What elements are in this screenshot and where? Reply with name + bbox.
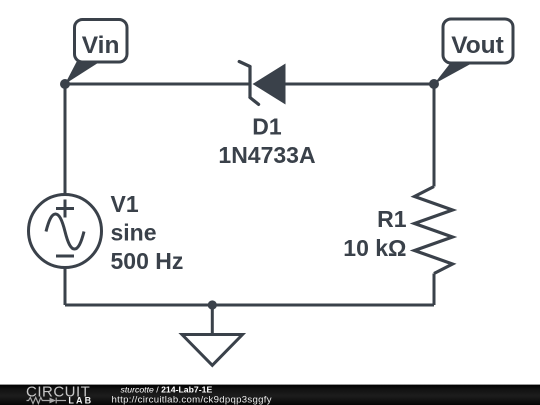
svg-text:D1: D1 [252,113,282,139]
svg-text:sine: sine [111,220,157,246]
node Vout flag callout [434,19,513,84]
svg-text:1N4733A: 1N4733A [218,142,315,168]
svg-text:10 kΩ: 10 kΩ [343,235,406,261]
resistor R1 [415,187,453,274]
svg-text:R1: R1 [377,206,407,232]
svg-text:sturcotte / 214-Lab7-1E: sturcotte / 214-Lab7-1E [121,384,213,394]
svg-text:V1: V1 [111,191,139,217]
wire: ground stub [211,305,214,335]
svg-text:Vout: Vout [451,32,504,59]
voltage source V1 [29,195,102,268]
wire: R1 bottom down to bottom rail [433,274,436,306]
wire: V1 negative terminal down to bottom rail [64,267,67,305]
wire: bottom rail [65,304,434,307]
wire: Vin node to D1 cathode [65,83,250,86]
node Vout junction dot [429,79,439,89]
svg-text:Vin: Vin [82,32,120,59]
node Vin junction dot [60,79,70,89]
ground junction dot [208,300,217,309]
svg-text:http://circuitlab.com/ck9dpqp3: http://circuitlab.com/ck9dpqp3sggfy [112,395,272,405]
ground symbol [182,335,243,366]
svg-text:500 Hz: 500 Hz [111,248,184,274]
wire: D1 anode to Vout node [286,83,435,86]
footer bar [0,385,540,405]
CircuitLab logo schematic squiggle [27,397,67,403]
diode D1 zener 1N4733A [239,62,285,105]
wire: Vout node down to R1 top [433,84,436,187]
wire: Vin node down to V1 positive terminal [64,84,67,195]
node Vin flag callout [65,20,127,85]
svg-text:LAB: LAB [68,395,93,405]
